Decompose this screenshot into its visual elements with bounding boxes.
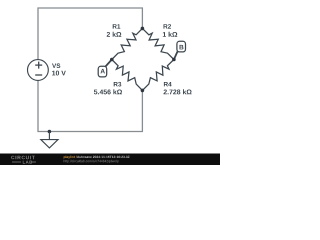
- footer bar: [0, 154, 220, 166]
- resistor R1: [112, 28, 143, 59]
- resistor R4: [142, 60, 174, 91]
- R3 value 5.456 kOhm: [94, 89, 122, 94]
- VS value 10 V: [52, 71, 66, 76]
- junction dot node A: [110, 58, 114, 62]
- R4 value 2.728 kOhm: [164, 89, 192, 94]
- node A pointer: [106, 60, 112, 67]
- R3 label: [114, 82, 122, 87]
- R2 label: [164, 24, 172, 29]
- junction dot top node: [141, 27, 145, 31]
- footer text line 2: [64, 160, 119, 163]
- junction dot ground tap: [48, 130, 52, 134]
- junction dot node B: [172, 58, 176, 62]
- node A box: [98, 66, 107, 77]
- wire from source top to top node: [38, 8, 142, 60]
- footer logo LAB: [23, 161, 32, 164]
- node B letter: [180, 45, 184, 50]
- node B pointer: [174, 52, 178, 60]
- resistor R2: [142, 28, 174, 59]
- R1 label: [113, 24, 121, 28]
- R2 value 1 kOhm: [163, 32, 177, 37]
- node B box: [177, 41, 186, 52]
- R4 label: [164, 82, 172, 86]
- voltage source VS: [28, 60, 49, 81]
- node A letter: [101, 69, 105, 74]
- ground: [41, 140, 58, 148]
- footer logo CIRCUIT: [11, 156, 35, 160]
- ground stem: [48, 132, 50, 140]
- footer text line 1: [64, 156, 77, 159]
- VS label: [52, 63, 60, 68]
- R1 value 2 kOhm: [107, 32, 122, 37]
- resistor R3: [112, 60, 143, 91]
- wire from source bottom to bottom node: [38, 80, 142, 131]
- junction dot bottom node: [141, 89, 145, 93]
